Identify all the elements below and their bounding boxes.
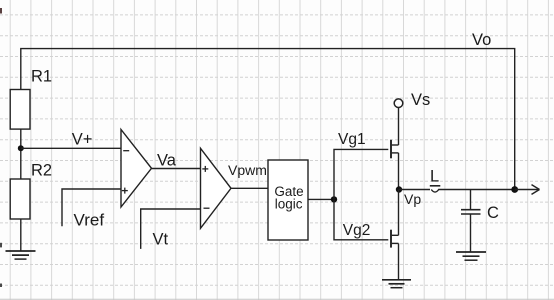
svg-text:Vt: Vt [153,231,169,249]
gate logic block U3 [268,160,308,240]
svg-text:logic: logic [275,196,303,211]
svg-text:Vo: Vo [472,31,491,49]
mark [0,284,2,288]
wire output arrow [515,185,540,195]
wire R1 to R2 [20,129,22,179]
node gate drive junction dot [331,196,337,202]
node output junction dot [511,186,518,193]
svg-text:R1: R1 [31,68,52,86]
svg-text:Vp: Vp [404,191,421,207]
ground (below C) [456,252,486,260]
mark [0,8,2,14]
wire capacitor top [470,190,472,210]
wire Vs to Q1 drain [398,108,400,145]
svg-text:Va: Va [157,152,177,170]
svg-text:Vs: Vs [411,91,430,109]
wire V+ node to op-amp inverting input [21,147,121,149]
wire R2 to ground [20,219,22,251]
wire Vp to inductor [399,189,430,191]
wire Q1 source to node Vp [398,153,400,190]
wire capacitor bottom to ground [470,214,472,252]
svg-text:Vg1: Vg1 [338,131,366,148]
transistor Q1 high-side MOSFET [391,140,399,159]
capacitor C [461,210,481,214]
inductor L [430,186,441,192]
resistor R1 [10,90,30,130]
node Vp junction dot [396,186,402,192]
supply terminal Vs [394,99,403,108]
op-amp U1 error amplifier [121,130,152,208]
wire Q2 source to ground [398,243,400,279]
svg-text:Vref: Vref [74,211,105,230]
wire Vref to op-amp non-inverting input [62,189,121,226]
svg-text:Vpwm: Vpwm [228,162,267,178]
mark [0,243,2,248]
wire Q2 drain from node Vp [398,190,400,236]
resistor R2 [10,179,30,219]
op-amp U2 PWM comparator [201,148,232,228]
svg-text:Vg2: Vg2 [343,222,371,239]
wire Va: U1 output to U2 + input [151,168,201,170]
ground (below Q2) [382,280,411,288]
wire Vpwm: U2 output to gate logic [231,187,268,189]
wire inductor to output node [438,189,515,191]
svg-text:C: C [487,204,499,222]
svg-text:R2: R2 [31,162,52,180]
wire Vg2 to Q2 gate [334,199,388,239]
transistor Q2 low-side MOSFET [391,230,399,248]
wire gate logic output [308,198,334,200]
wire Vt to U2 - input [141,209,201,249]
svg-text:V+: V+ [72,130,93,148]
ground (below R2) [6,251,36,259]
wire top rail Vo [21,49,515,190]
node V+ junction dot [18,145,24,151]
svg-text:L: L [430,168,439,186]
wire Vg1 to Q1 gate [334,149,388,199]
